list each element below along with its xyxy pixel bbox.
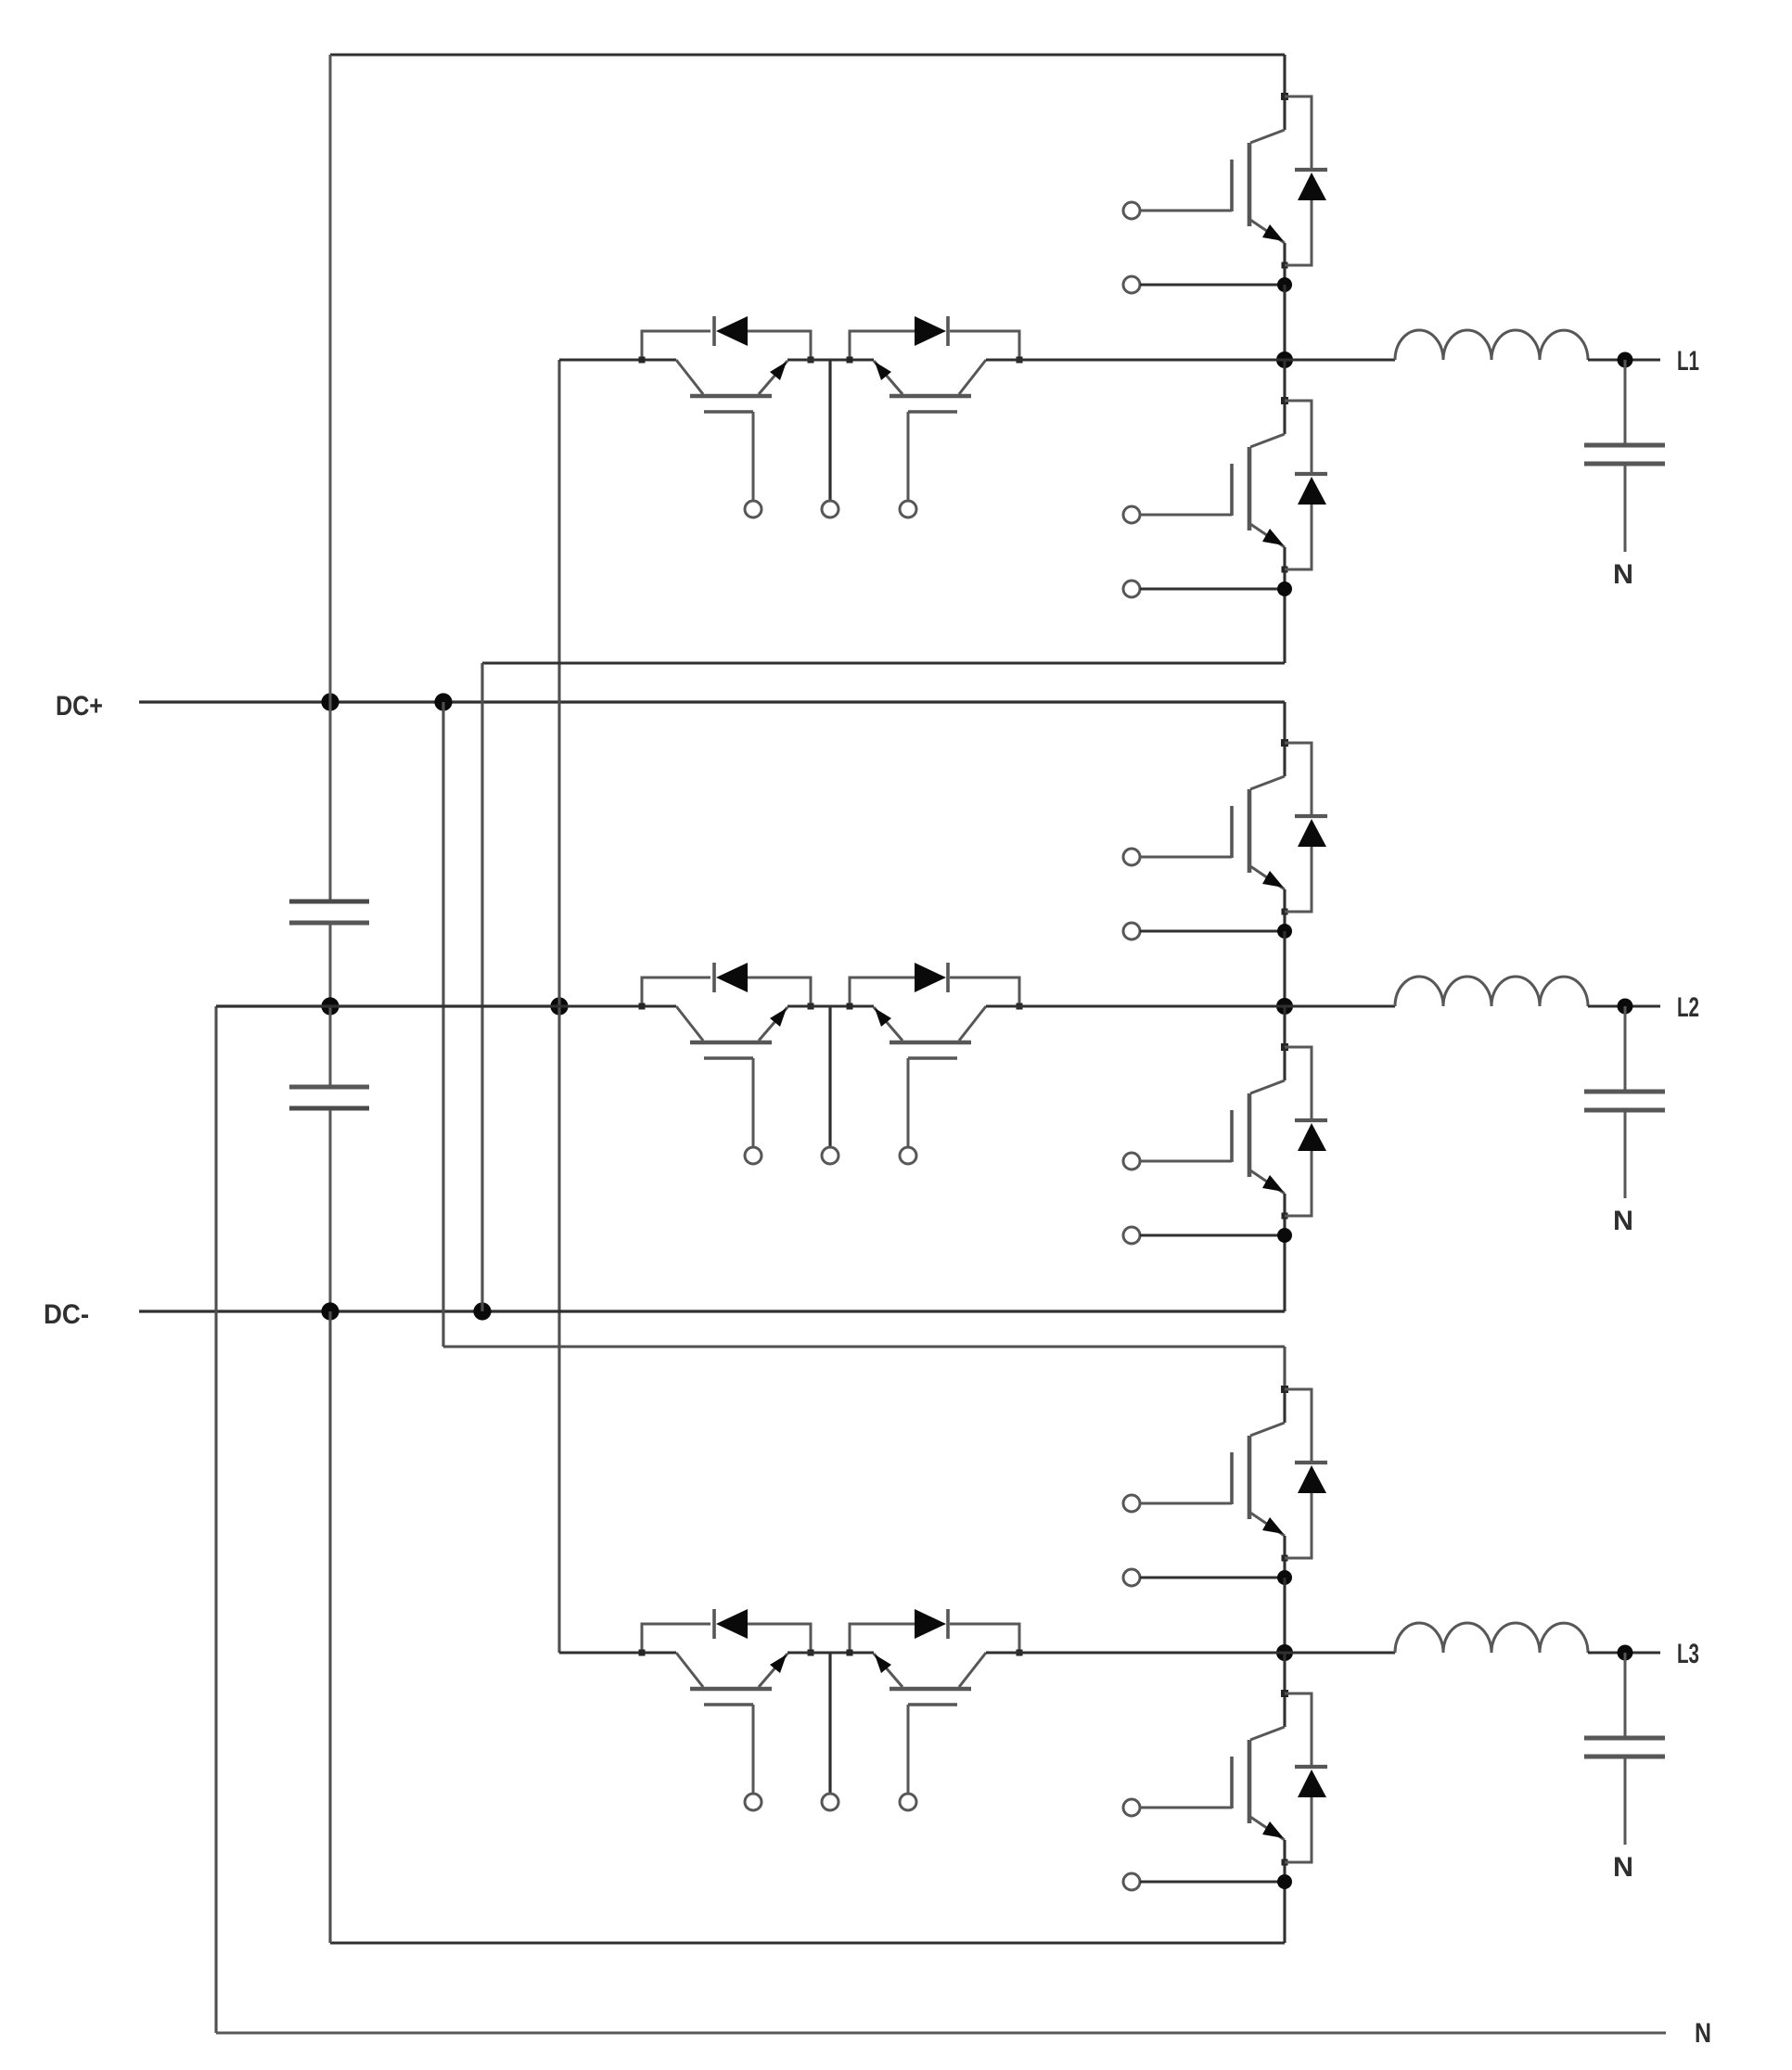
node (DC- / capacitor C2)	[321, 1302, 339, 1320]
terminal (emitter sense Q2A)	[1123, 923, 1285, 939]
net label L2	[1677, 992, 1699, 1023]
wire	[1588, 1651, 1660, 1654]
transistor Q2B (bottom IGBT, phase L2)	[1140, 1043, 1288, 1235]
wire	[1283, 285, 1286, 360]
diode D3D (across Q3D)	[847, 1609, 1023, 1656]
capacitor C1 (upper DC link)	[289, 702, 369, 1006]
node (phase L1 mid point)	[1276, 351, 1293, 368]
terminal (gate Q3A)	[1123, 1495, 1140, 1512]
capacitor C2 (lower DC link)	[289, 1006, 369, 1311]
terminal (emitter sense Q3B)	[1123, 1873, 1285, 1890]
transistor Q2D (bidirectional switch right IGBT, phase L2)	[874, 1006, 986, 1147]
diode D3A (antiparallel, Q3A)	[1285, 1389, 1327, 1558]
terminal (gate Q2A)	[1123, 849, 1140, 865]
terminal (gate Q1B)	[1123, 506, 1140, 523]
node (emitter junction Q3B)	[1277, 1874, 1292, 1889]
node (midpoint / capacitor junction)	[321, 997, 339, 1015]
wire (neutral riser from midpoint)	[214, 1006, 217, 2033]
net label N (phase L2 filter return)	[1613, 1206, 1633, 1236]
wire	[1283, 931, 1286, 1006]
wire (midpoint feed riser to phases L1 and L3)	[557, 360, 560, 1653]
wire (phase L2 bottom return)	[1283, 1235, 1286, 1311]
diode D1A (antiparallel, Q1A)	[1285, 96, 1327, 265]
node (phase L2 mid point)	[1276, 998, 1293, 1015]
inductor (phase L3 filter)	[1395, 1623, 1588, 1653]
wire	[787, 1004, 874, 1007]
diode D2B (antiparallel, Q2B)	[1285, 1047, 1327, 1216]
wire	[1283, 360, 1286, 401]
wire	[986, 1651, 1285, 1654]
node (emitter junction Q3A)	[1277, 1570, 1292, 1585]
diode D1B (antiparallel, Q1B)	[1285, 401, 1327, 569]
svg-text:DC+: DC+	[56, 691, 103, 722]
svg-text:N: N	[1613, 559, 1633, 590]
diode D3C (across Q3C)	[639, 1609, 814, 1656]
terminal (emitter sense Q3A)	[1123, 1569, 1285, 1586]
node (midpoint rail / bidi feed riser)	[550, 997, 568, 1015]
terminal (common emitter Q1C/Q1D)	[822, 360, 838, 517]
inductor (phase L2 filter)	[1395, 977, 1588, 1006]
svg-text:N: N	[1695, 2018, 1711, 2049]
node (phase L3 mid point)	[1276, 1644, 1293, 1661]
wire	[1285, 1651, 1395, 1654]
wire (capacitor string riser)	[329, 55, 332, 702]
transistor Q3B (bottom IGBT, phase L3)	[1140, 1690, 1288, 1882]
node (DC+ / phase L3 feed)	[434, 693, 452, 710]
transistor Q2C (bidirectional switch left IGBT, phase L2)	[676, 1006, 787, 1147]
diode D2C (across Q2C)	[639, 963, 814, 1010]
terminal (gate Q1D)	[900, 501, 916, 517]
wire	[986, 358, 1285, 361]
wire	[1588, 358, 1660, 361]
wire	[787, 358, 874, 361]
wire (midpoint rail)	[216, 1004, 559, 1007]
wire	[787, 1651, 874, 1654]
wire (DC- rail)	[139, 1310, 1285, 1312]
diode D1C (across Q1C)	[639, 316, 814, 364]
wire	[216, 1004, 676, 1007]
wire	[559, 358, 676, 361]
diode D2D (across Q2D)	[847, 963, 1023, 1010]
terminal (gate Q3D)	[900, 1794, 916, 1810]
diode D3B (antiparallel, Q3B)	[1285, 1693, 1327, 1862]
svg-text:N: N	[1613, 1852, 1633, 1883]
wire (DC+ rail)	[139, 702, 1285, 743]
wire (neutral rail N)	[216, 2032, 1666, 2035]
terminal (common emitter Q2C/Q2D)	[822, 1006, 838, 1164]
terminal (emitter sense Q1A)	[1123, 276, 1285, 293]
transistor Q1A (top IGBT, phase L1)	[1140, 93, 1288, 285]
wire	[1285, 358, 1395, 361]
terminal (emitter sense Q2B)	[1123, 1227, 1285, 1244]
terminal (gate Q1C)	[745, 501, 762, 517]
node (emitter junction Q2A)	[1277, 924, 1292, 939]
wire	[1285, 1004, 1395, 1007]
capacitor (phase L1 filter)	[1584, 360, 1665, 552]
wire	[986, 1004, 1285, 1007]
node (emitter junction Q2B)	[1277, 1228, 1292, 1243]
node (emitter junction Q1B)	[1277, 581, 1292, 596]
terminal (gate Q2C)	[745, 1147, 762, 1164]
transistor Q3D (bidirectional switch right IGBT, phase L3)	[874, 1653, 986, 1794]
wire	[1283, 1578, 1286, 1653]
svg-text:L2: L2	[1677, 992, 1699, 1023]
wire	[1283, 1006, 1286, 1047]
transistor Q3A (top IGBT, phase L3)	[1140, 1386, 1288, 1578]
terminal (emitter sense Q1B)	[1123, 581, 1285, 597]
net label L1	[1677, 346, 1699, 377]
transistor Q1D (bidirectional switch right IGBT, phase L1)	[874, 360, 986, 501]
transistor Q1C (bidirectional switch left IGBT, phase L1)	[676, 360, 787, 501]
terminal (gate Q1A)	[1123, 202, 1140, 219]
net label N (phase L3 filter return)	[1613, 1852, 1633, 1883]
node (DC- / phase L1 bottom return)	[473, 1302, 491, 1320]
net label DC-	[44, 1299, 89, 1330]
node (phase L2 output)	[1618, 999, 1633, 1015]
terminal (gate Q3C)	[745, 1794, 762, 1810]
svg-text:DC-: DC-	[44, 1299, 89, 1330]
net label DC+	[56, 691, 103, 722]
transistor Q3C (bidirectional switch left IGBT, phase L3)	[676, 1653, 787, 1794]
diode D2A (antiparallel, Q2A)	[1285, 743, 1327, 912]
transistor Q1B (bottom IGBT, phase L1)	[1140, 397, 1288, 589]
terminal (common emitter Q3C/Q3D)	[822, 1653, 838, 1810]
node (phase L3 output)	[1618, 1645, 1633, 1661]
capacitor (phase L2 filter)	[1584, 1006, 1665, 1198]
terminal (gate Q2B)	[1123, 1153, 1140, 1169]
node (phase L1 output)	[1618, 352, 1633, 368]
svg-text:L3: L3	[1677, 1639, 1699, 1669]
net label N (neutral rail)	[1695, 2018, 1711, 2049]
inductor (phase L1 filter)	[1395, 330, 1588, 360]
node (DC+ / capacitor C1)	[321, 693, 339, 710]
net label L3	[1677, 1639, 1699, 1669]
net label N (phase L1 filter return)	[1613, 559, 1633, 590]
wire (phase L3 bottom return)	[330, 1311, 1285, 1943]
svg-text:N: N	[1613, 1206, 1633, 1236]
svg-text:L1: L1	[1677, 346, 1699, 377]
wire (DC+ feed riser to phase L3 top)	[443, 702, 1285, 1389]
wire	[559, 1651, 676, 1654]
node (emitter junction Q1A)	[1277, 277, 1292, 292]
diode D1D (across Q1D)	[847, 316, 1023, 364]
wire	[1588, 1004, 1660, 1007]
transistor Q2A (top IGBT, phase L2)	[1140, 739, 1288, 931]
wire	[1283, 1653, 1286, 1693]
wire (phase L1 bottom return)	[482, 589, 1285, 1311]
wire (DC+ feed to phase L1 top, upper rail)	[330, 55, 1285, 96]
terminal (gate Q3B)	[1123, 1799, 1140, 1816]
terminal (gate Q2D)	[900, 1147, 916, 1164]
capacitor (phase L3 filter)	[1584, 1653, 1665, 1845]
